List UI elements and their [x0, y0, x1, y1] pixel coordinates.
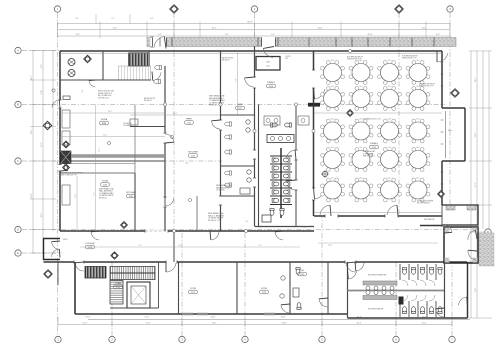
svg-text:8'-4": 8'-4": [41, 90, 43, 94]
grid line B horizontal: [22, 104, 445, 106]
toilet mid 2: [225, 135, 232, 139]
west wall door arc: [52, 100, 60, 108]
restroom west wall x258: [258, 105, 260, 227]
svg-text:E: E: [17, 251, 19, 255]
bottom dimension line: [58, 324, 452, 326]
note kitchen 2: [144, 98, 156, 102]
svg-text:RE: A5.01 TYP: RE: A5.01 TYP: [208, 219, 221, 222]
annex wall x290: [289, 262, 291, 314]
west exterior wall: [59, 51, 61, 231]
mid corridor west wall x254: [254, 46, 256, 227]
restroom east wall x296: [295, 105, 297, 227]
svg-text:EXISTING WOMEN RM: EXISTING WOMEN RM: [368, 275, 387, 277]
note exit device SW: [61, 173, 83, 177]
kitchen west wall door 2: [163, 197, 166, 207]
dining table r2c3: [378, 86, 402, 111]
svg-text:24-0: 24-0: [416, 147, 420, 149]
label annex room 1: [189, 288, 198, 294]
corridor dim line: [318, 242, 438, 244]
label serving: [236, 104, 245, 110]
annex wall x237: [236, 262, 238, 314]
grid bottom line b4: [244, 231, 246, 336]
svg-text:19'-6": 19'-6": [31, 129, 33, 134]
toilet bottom 2: [280, 209, 284, 216]
kitchen east wall: [220, 51, 222, 231]
svg-text:24-0: 24-0: [388, 86, 392, 88]
label stair annex: [114, 282, 123, 289]
office south wall NW: [60, 79, 103, 81]
lav sink 2: [278, 136, 282, 140]
room 123 door arc: [348, 270, 357, 279]
extra top tick b: [129, 14, 131, 24]
hatched north exterior wall: [147, 38, 456, 47]
dining table r2c1: [321, 86, 345, 111]
stall toilets: [272, 158, 290, 203]
mop sink: [262, 215, 271, 222]
label room 103: [267, 82, 276, 88]
bottom grid bubbles: [55, 336, 455, 342]
corridor door opening west: [74, 260, 84, 263]
floor drain 2: [189, 199, 192, 202]
keynote wall markers: [163, 49, 351, 232]
west wall door gap 2: [58, 165, 61, 172]
svg-text:16'-4": 16'-4": [212, 27, 217, 29]
svg-text:24-0: 24-0: [331, 60, 335, 62]
svg-text:W.H.: W.H.: [448, 130, 453, 132]
grid line D horizontal: [22, 229, 480, 231]
svg-text:9'-0": 9'-0": [82, 89, 84, 93]
svg-text:8'-4": 8'-4": [75, 18, 79, 20]
vestibule door arc upper: [52, 241, 61, 250]
equipment circle 2: [68, 70, 75, 77]
gray existing wall segments on annex south wall: [182, 313, 275, 315]
equipment rect kitchen: [130, 119, 138, 125]
svg-text:24'-8": 24'-8": [318, 27, 323, 29]
sink small restroom: [293, 288, 299, 297]
entry door arc lower: [468, 250, 477, 260]
toilet mid 3: [225, 150, 232, 154]
mid restroom south wall: [221, 195, 255, 197]
annex door arc x290: [281, 304, 290, 313]
dining south door arc 2: [387, 205, 398, 216]
svg-text:DINING: DINING: [267, 82, 275, 84]
toilet mid 1: [225, 122, 232, 126]
east entry upper hatched walls: [442, 205, 478, 225]
svg-text:24-0: 24-0: [388, 177, 392, 179]
svg-text:24-0: 24-0: [388, 118, 392, 120]
grid bubble E left: [15, 250, 21, 256]
svg-text:24-0: 24-0: [331, 86, 335, 88]
stair east wall upper: [148, 51, 150, 66]
label storage 108: [101, 181, 110, 187]
left dimension line 1: [32, 51, 34, 254]
east bump south wall: [442, 160, 465, 162]
svg-text:C: C: [17, 159, 19, 163]
svg-text:COOLER: COOLER: [85, 243, 95, 245]
svg-text:VESTIBULE: VESTIBULE: [424, 219, 435, 221]
SE sinks: [366, 286, 394, 295]
SE janitor blob: [399, 297, 404, 305]
right dim texts: [475, 77, 477, 292]
svg-text:21'-8": 21'-8": [75, 193, 77, 198]
keynote diamond corridor: [111, 252, 118, 259]
sink mid 1: [246, 120, 250, 124]
stair enclosure south wall: [110, 307, 159, 309]
svg-text:3'-4": 3'-4": [303, 227, 307, 229]
svg-text:VENDOR NIC TYP: VENDOR NIC TYP: [419, 86, 434, 88]
grid bottom line b2: [111, 262, 113, 336]
right dimension line 1: [470, 51, 472, 318]
label soda bib: [100, 118, 109, 125]
svg-text:24-0: 24-0: [359, 147, 363, 149]
dining table r1c3: [378, 60, 402, 85]
vestibule door arc lower: [52, 249, 61, 258]
svg-text:9'-8": 9'-8": [185, 163, 189, 165]
corridor door arc c: [275, 231, 284, 240]
top dimension line 3: [58, 35, 451, 37]
svg-text:A: A: [17, 49, 19, 53]
counter line C: [60, 160, 165, 162]
west wall door arc 2: [60, 163, 68, 171]
svg-text:24-0: 24-0: [416, 118, 420, 120]
right paving strip: [479, 233, 494, 266]
grid bottom line b3: [181, 231, 183, 336]
label top small: [285, 56, 291, 60]
dining table r3c1: [321, 118, 345, 143]
north wall inner face line: [60, 52, 442, 54]
dining table r4c2: [349, 147, 373, 172]
svg-text:105: 105: [285, 58, 288, 60]
label small toilet: [298, 270, 307, 276]
rooms south wall on grid D: [60, 230, 314, 232]
note dining seats: [363, 150, 376, 158]
door arc stair room: [152, 72, 161, 81]
svg-text:9'-2": 9'-2": [94, 192, 96, 196]
entry inner door arc: [444, 225, 452, 233]
annex door arc east: [346, 262, 356, 272]
corridor door opening east: [345, 260, 356, 263]
lavatory counter: [267, 135, 294, 143]
top dimension line 1: [58, 23, 451, 25]
svg-text:13'-0": 13'-0": [475, 132, 477, 137]
dining table r2c4: [406, 86, 430, 111]
fixture annex small 2: [280, 294, 284, 298]
svg-text:16'-8": 16'-8": [282, 323, 287, 325]
svg-text:EXIT DEVICE HDWE GROUP: EXIT DEVICE HDWE GROUP: [61, 173, 83, 175]
svg-text:EXISTING MEN RM: EXISTING MEN RM: [368, 309, 384, 311]
east bump north wall: [442, 107, 465, 109]
small restroom annex fixtures: [296, 268, 300, 275]
bottom dimension ticks: [58, 317, 452, 327]
svg-text:24-0: 24-0: [416, 60, 420, 62]
lower stair run annex: [110, 281, 123, 305]
svg-text:RE: A5.01: RE: A5.01: [99, 196, 107, 199]
svg-text:24'-2": 24'-2": [108, 111, 113, 113]
interior dim hline y113: [62, 112, 165, 114]
svg-text:RE: A5.01: RE: A5.01: [144, 99, 152, 102]
corridor door opening mid: [166, 260, 177, 263]
grid bubble 3 top: [447, 6, 453, 12]
svg-text:PREP: PREP: [186, 119, 192, 121]
svg-text:86'-8": 86'-8": [247, 21, 252, 23]
restroom stall spine: [280, 148, 282, 218]
dining table r4c4: [406, 147, 430, 172]
keyed note top 1: [347, 57, 364, 61]
east exterior wall mid: [441, 161, 443, 205]
closet at top: [256, 57, 280, 71]
wall x135 upper light: [134, 105, 136, 174]
grid line 1.5 vertical: [173, 13, 175, 231]
keynote diamond top 2: [395, 5, 404, 14]
svg-text:11'-0": 11'-0": [41, 142, 43, 147]
svg-text:SERV: SERV: [237, 104, 243, 106]
svg-text:5'-0": 5'-0": [258, 245, 262, 247]
main stair annex: [110, 267, 155, 280]
sink mid 3: [247, 170, 251, 174]
dining table r3c4: [406, 118, 430, 143]
east wall connector: [441, 205, 443, 227]
svg-text:21'-2": 21'-2": [113, 27, 118, 29]
kitchen door arc 1: [165, 134, 174, 143]
opening header dashed: [145, 230, 168, 232]
grid bubble C left: [15, 158, 21, 164]
svg-text:24-0: 24-0: [388, 60, 392, 62]
right dimension line 3: [482, 51, 484, 229]
grid bubble E right: [485, 259, 491, 265]
dining table r4c3: [378, 147, 402, 172]
counter line C lower: [60, 163, 135, 165]
equipment diamond NW: [84, 55, 92, 63]
annex east wall: [467, 262, 469, 318]
lav sink 1: [270, 136, 274, 140]
grid bubble A left: [15, 47, 21, 53]
east exterior wall upper: [441, 51, 443, 108]
dining south wall: [314, 215, 442, 217]
fixture by stair 2: [154, 79, 161, 83]
svg-text:16'-8": 16'-8": [281, 317, 286, 319]
label men: [368, 309, 384, 311]
top east corner door arc: [437, 51, 448, 62]
corridor door arc a: [91, 231, 100, 240]
keynote diamond top 1: [170, 5, 179, 14]
toilet upper pair R: [285, 123, 292, 127]
svg-text:24-0: 24-0: [331, 177, 335, 179]
dining table r3c2: [349, 118, 373, 143]
label women: [368, 275, 387, 277]
svg-text:18'-2": 18'-2": [31, 75, 33, 80]
east wall window ticks: [441, 62, 444, 196]
corridor dim line west: [80, 246, 300, 248]
equipment rect west 2: [62, 131, 70, 145]
bump inner line: [445, 111, 447, 158]
toilet small restroom 2: [297, 303, 301, 310]
SE toilets upper: [402, 268, 442, 275]
grid line E horizontal: [22, 252, 62, 254]
right dimension line 4: [488, 51, 490, 229]
svg-text:15'-4": 15'-4": [146, 323, 151, 325]
note kitchen wall: [209, 95, 225, 107]
dining table r5c3: [378, 177, 402, 202]
svg-text:14'-6": 14'-6": [173, 113, 178, 115]
svg-text:STOR: STOR: [102, 181, 108, 183]
grid bubble B left: [15, 101, 21, 107]
dining table r1c4: [406, 60, 430, 85]
svg-text:12'-6": 12'-6": [475, 287, 477, 292]
fixture by stair: [155, 65, 162, 69]
keynote diamond above wall D: [121, 222, 128, 229]
dining west wall: [313, 51, 315, 216]
north wall door gap west: [150, 37, 153, 47]
keynote diamond dining: [347, 110, 354, 117]
right dimension ticks: [469, 51, 492, 318]
equipment rect west 3: [62, 185, 70, 205]
restroom door arc 2: [286, 180, 296, 190]
dining table r5c2: [349, 177, 373, 202]
grid bubble 1 top: [54, 6, 60, 12]
svg-text:STOR: STOR: [261, 288, 267, 290]
label cooler: [85, 243, 95, 249]
SE lavatory counters: [363, 281, 397, 300]
kitchen interior dim line: [130, 114, 220, 116]
west vestibule: [44, 239, 61, 260]
dining interior dim line: [314, 112, 442, 114]
small marker left dim: [52, 89, 55, 92]
grid bottom line b7: [451, 266, 453, 336]
svg-text:BOILER IN: BOILER IN: [124, 123, 133, 125]
svg-text:4'-0": 4'-0": [436, 34, 440, 36]
grid bottom line b5: [321, 216, 323, 336]
stair upper dark flight: [129, 53, 149, 66]
annex south wall restrooms: [348, 317, 445, 319]
svg-text:27'-2": 27'-2": [99, 147, 101, 152]
stair enclosure east wall: [158, 262, 160, 308]
svg-text:8'-6": 8'-6": [236, 78, 238, 82]
right dimension line 2: [476, 51, 478, 318]
keynote diamond right wall: [451, 89, 460, 98]
note NW wall: [98, 91, 114, 100]
door on x254 upper: [253, 77, 256, 88]
lav sink 3: [286, 136, 290, 140]
interior dim hline y136: [60, 136, 165, 138]
svg-text:14'-0": 14'-0": [212, 323, 217, 325]
SE stall partitions upper: [400, 264, 436, 280]
svg-text:24'-2": 24'-2": [103, 135, 108, 137]
keynote diamond left wall: [43, 121, 52, 130]
label kitchen: [126, 192, 136, 198]
grid line A horizontal: [22, 50, 62, 52]
svg-text:DINING: DINING: [370, 143, 378, 145]
interior dim vline x77: [76, 176, 78, 231]
svg-text:10'-2": 10'-2": [41, 212, 43, 217]
SE restroom east wall: [444, 262, 446, 318]
toilet mid 5: [225, 183, 232, 187]
bottom outline thin line: [88, 319, 470, 321]
SE stall partitions lower: [400, 301, 436, 317]
svg-text:B: B: [17, 103, 19, 107]
svg-text:RE: VESTIBULE: RE: VESTIBULE: [417, 203, 430, 205]
svg-text:VENDOR NIC TYP: VENDOR NIC TYP: [347, 59, 362, 61]
corridor door arc b: [210, 231, 219, 240]
note SW room: [99, 188, 114, 200]
label prep: [185, 119, 194, 125]
west stub wall below vestibule: [57, 262, 59, 285]
svg-text:24-0: 24-0: [388, 147, 392, 149]
svg-text:12'-2": 12'-2": [83, 323, 88, 325]
svg-text:PLUMBING: PLUMBING: [124, 125, 133, 127]
svg-text:VENDOR NIC TYP: VENDOR NIC TYP: [402, 58, 417, 60]
equipment circle 1: [68, 59, 75, 66]
wall blob grid B at dining west: [308, 103, 320, 107]
left dim texts: [31, 64, 43, 218]
dock diamond lower: [63, 164, 70, 171]
top west door arc: [154, 37, 166, 49]
kitchen west wall door: [163, 133, 166, 143]
west dock blocks crosshatched: [61, 151, 72, 164]
corridor cross wall x174: [173, 231, 175, 262]
fixture small NW: [63, 96, 70, 100]
SE closet door arc: [436, 308, 445, 317]
label dining 101: [370, 143, 379, 149]
dining table r5c4: [406, 177, 430, 202]
top center door arc: [263, 47, 274, 58]
corridor south wall: [44, 261, 468, 263]
svg-text:5'-0": 5'-0": [138, 245, 142, 247]
grid bottom line b6: [395, 262, 397, 336]
annex west wall: [74, 262, 76, 314]
floor drain 3: [108, 142, 111, 145]
svg-text:11'-2": 11'-2": [475, 182, 477, 187]
keyed note top 2: [402, 56, 419, 60]
restroom door arc 1: [286, 150, 296, 160]
svg-text:5'-0": 5'-0": [245, 221, 249, 223]
stall partitions: [270, 156, 292, 205]
svg-text:D: D: [17, 228, 19, 232]
small dark stair annex: [85, 267, 106, 279]
grid line 2 vertical: [254, 13, 256, 226]
svg-text:24-0: 24-0: [331, 147, 335, 149]
sink mid 4: [247, 178, 251, 182]
svg-text:24'-0": 24'-0": [211, 317, 216, 319]
top dim texts row2: [113, 27, 427, 29]
interior dim vline x95: [95, 105, 97, 231]
kitchen door arc 2: [165, 197, 174, 206]
svg-text:6'-0": 6'-0": [178, 245, 182, 247]
kitchen east door 2: [219, 196, 222, 205]
svg-text:8'-4": 8'-4": [76, 34, 80, 36]
kitchen wall y126: [130, 126, 165, 128]
storefront mullion ticks on north band: [160, 38, 434, 47]
note right vestibule: [417, 201, 434, 205]
east entry vestibule: [444, 227, 478, 263]
kitchen east door 1: [219, 120, 222, 130]
desk cluster 1: [264, 116, 280, 125]
dock diamond upper: [63, 141, 70, 148]
top dimension line 2: [58, 29, 451, 31]
grid line E2 right stub: [468, 261, 484, 263]
mid restroom north wall: [221, 114, 255, 116]
svg-text:KITCHEN: KITCHEN: [126, 192, 136, 194]
mid mop sink: [240, 188, 250, 194]
SE east door arc: [459, 297, 468, 306]
top dimension ticks: [58, 22, 451, 39]
west wall door gap: [58, 100, 61, 108]
svg-text:14'-2": 14'-2": [475, 77, 477, 82]
desk cluster 2: [298, 116, 309, 125]
annex south wall west part: [75, 313, 348, 315]
dining south door arc 1: [320, 205, 331, 216]
left dimension line 2: [42, 51, 44, 254]
SE restroom center wall gray: [348, 290, 445, 292]
